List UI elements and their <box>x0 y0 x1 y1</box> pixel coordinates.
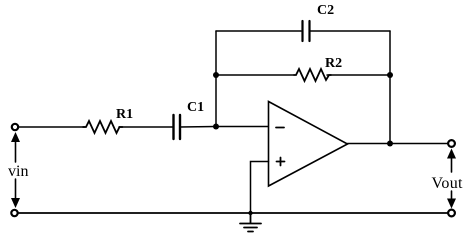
svg-text:R1: R1 <box>116 107 133 122</box>
svg-text:Vout: Vout <box>432 175 464 192</box>
Vout arrow up <box>447 149 456 173</box>
wire left feedback vertical <box>215 31 217 127</box>
wire C2 row left <box>216 30 301 32</box>
wire node A to op-amp inverting input <box>216 126 268 128</box>
vin arrow up <box>11 132 20 162</box>
terminal vout+ <box>448 140 455 147</box>
node A junction <box>213 124 219 130</box>
resistor R2 <box>294 69 331 81</box>
op-amp U1 <box>269 102 348 187</box>
node ground junction <box>248 211 252 215</box>
wire bottom rail <box>18 212 449 214</box>
svg-text:C1: C1 <box>187 100 204 115</box>
node left R2 junction <box>213 72 219 78</box>
svg-text:vin: vin <box>8 163 28 180</box>
wire C1 to node A <box>180 126 216 129</box>
wire R2 row right <box>327 74 390 76</box>
node right R2 junction <box>387 72 393 78</box>
op-amp minus symbol <box>276 127 284 129</box>
wire op-amp output <box>348 143 449 145</box>
ground <box>240 213 261 232</box>
resistor R1 <box>83 121 123 133</box>
capacitor C2 <box>303 21 310 41</box>
wire R1 to C1 <box>119 126 173 128</box>
svg-text:R2: R2 <box>325 56 342 71</box>
terminal vin+ <box>12 124 18 130</box>
vin arrow down <box>11 179 20 208</box>
wire right feedback vertical <box>389 31 391 144</box>
wire C2 row right <box>310 30 390 32</box>
svg-text:C2: C2 <box>317 3 334 18</box>
op-amp plus symbol <box>277 158 285 166</box>
wire R2 row left <box>216 74 294 76</box>
wire op-amp noninverting input stub <box>251 162 269 214</box>
Vout arrow down <box>447 191 456 209</box>
terminal vout- <box>448 210 455 217</box>
capacitor C1 <box>174 115 181 139</box>
wire vin+ to R1 <box>19 126 86 128</box>
terminal vin- <box>11 210 17 216</box>
node output junction <box>387 141 393 147</box>
